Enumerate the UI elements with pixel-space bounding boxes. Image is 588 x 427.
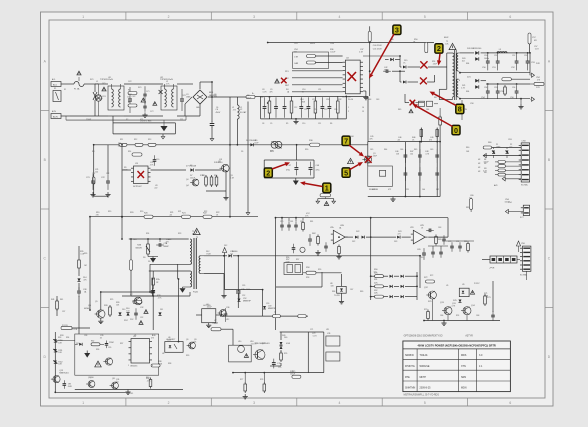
wire — [371, 276, 375, 296]
svg-text:C43: C43 — [376, 99, 379, 101]
gnd — [293, 119, 298, 124]
svg-text:R22: R22 — [204, 211, 207, 213]
svg-text:222: 222 — [154, 187, 157, 189]
vert — [232, 329, 234, 345]
svg-text:104: 104 — [422, 189, 425, 191]
warning triangle W3b — [153, 102, 157, 106]
wire — [225, 289, 263, 291]
transistor Q13 — [440, 302, 452, 315]
svg-text:Q15: Q15 — [262, 343, 266, 345]
wire — [282, 218, 303, 221]
svg-text:C37: C37 — [62, 311, 65, 313]
transistor Q4 — [186, 179, 199, 187]
resistor R7A — [151, 271, 160, 330]
svg-text:MMBT5401: MMBT5401 — [59, 373, 68, 375]
svg-text:R44: R44 — [350, 136, 353, 138]
transformer T2 winding A — [190, 239, 192, 264]
svg-text:C58: C58 — [470, 103, 473, 105]
svg-text:C9: C9 — [270, 123, 272, 125]
fuse holder box — [53, 88, 61, 102]
border row ticks — [41, 111, 554, 308]
svg-text:1: 1 — [325, 184, 329, 193]
conn CN4 — [505, 205, 529, 215]
svg-text:R6: R6 — [330, 123, 332, 125]
vertical — [323, 332, 325, 373]
svg-text:R79: R79 — [292, 371, 295, 373]
vertical part — [470, 198, 473, 212]
svg-text:OB2265: OB2265 — [130, 366, 138, 368]
oval R79 — [292, 375, 301, 378]
component value labels — [80, 40, 541, 383]
border zone numbers — [82, 15, 511, 405]
cap C52 — [511, 54, 519, 71]
svg-text:R11: R11 — [120, 139, 123, 141]
common-mode choke LF1 — [92, 79, 124, 116]
svg-text:C49: C49 — [430, 149, 433, 151]
svg-text:5: 5 — [344, 168, 348, 177]
pfc box rails — [368, 142, 440, 197]
wire gnd bus — [94, 195, 108, 197]
marker 1 — [323, 183, 331, 193]
svg-text:R74: R74 — [456, 315, 459, 317]
svg-text:3: 3 — [253, 15, 255, 19]
zener Z2 — [53, 349, 62, 354]
svg-text:C21: C21 — [92, 173, 95, 175]
svg-text:C32: C32 — [140, 307, 143, 309]
svg-text:R49: R49 — [398, 109, 401, 111]
svg-text:104: 104 — [462, 60, 465, 62]
gnd arrows — [316, 199, 336, 204]
svg-text:1: 1 — [128, 365, 129, 367]
cap C64 — [431, 248, 443, 258]
svg-text:RX1: RX1 — [138, 87, 142, 89]
svg-text:C32: C32 — [140, 317, 143, 319]
resistor R38 — [151, 364, 160, 367]
transistor Q10 — [86, 381, 95, 388]
border inner frame — [49, 20, 545, 398]
svg-text:400W LCD/TV POWER (NCP1396+OB2: 400W LCD/TV POWER (NCP1396+OB2265+NCP160… — [417, 344, 495, 348]
svg-text:1000u: 1000u — [484, 58, 489, 60]
svg-text:R58: R58 — [306, 267, 309, 269]
zener pair 1 — [492, 148, 495, 159]
warning triangle W3 — [141, 98, 146, 102]
cap bank v2 — [418, 142, 422, 197]
svg-text:C15: C15 — [312, 99, 315, 101]
svg-text:R41: R41 — [60, 299, 63, 301]
transistor Q16 — [212, 310, 226, 325]
svg-text:R59: R59 — [318, 269, 321, 271]
svg-text:C65: C65 — [420, 257, 423, 259]
svg-text:C6: C6 — [216, 107, 218, 109]
resistor R78 — [263, 373, 266, 393]
resistor R63 — [338, 244, 341, 256]
svg-text:CN5: CN5 — [521, 243, 525, 245]
marker 10 — [452, 125, 460, 134]
svg-text:R81: R81 — [464, 241, 467, 243]
svg-text:R1: R1 — [128, 90, 130, 92]
diode D15 — [385, 58, 400, 61]
box right2 — [326, 352, 340, 361]
wire — [90, 217, 97, 313]
loop box sec — [276, 241, 322, 287]
svg-text:D13: D13 — [76, 343, 79, 345]
resistor RB2 — [128, 102, 137, 107]
svg-text:MDS: MDS — [461, 354, 467, 357]
svg-text:100uF: 100uF — [330, 51, 336, 53]
zener pair 2 — [506, 148, 509, 159]
wire — [177, 84, 200, 116]
wire rail out1 — [486, 52, 530, 54]
svg-text:R70: R70 — [428, 301, 431, 303]
svg-text:472: 472 — [388, 189, 391, 191]
svg-text:C54: C54 — [484, 87, 487, 89]
wire bottom rail — [90, 216, 258, 218]
connector CN5 — [520, 243, 531, 277]
gnd — [363, 91, 369, 100]
svg-text:C74: C74 — [456, 241, 459, 243]
svg-text:D7: D7 — [190, 165, 192, 167]
svg-text:R40: R40 — [146, 377, 149, 379]
warning triangle W11 — [470, 290, 474, 294]
cap C60 — [308, 234, 312, 246]
wire — [526, 271, 528, 280]
left loop box — [293, 52, 329, 69]
svg-text:473: 473 — [151, 337, 154, 339]
svg-text:D10: D10 — [122, 309, 125, 311]
svg-text:TL431: TL431 — [334, 295, 341, 297]
svg-text:1000u: 1000u — [246, 289, 251, 291]
resistor R14 — [132, 153, 142, 156]
marker 8 — [456, 104, 464, 114]
svg-text:D23: D23 — [394, 241, 397, 243]
transistor Q9 — [187, 342, 196, 349]
svg-text:C15: C15 — [324, 109, 327, 111]
wire — [446, 240, 474, 242]
resistor R17 — [215, 175, 218, 187]
svg-text:12V: 12V — [536, 87, 540, 89]
red X d16 — [420, 61, 427, 68]
bridge rectifier BD1 — [193, 90, 218, 104]
diode D13b — [75, 343, 82, 346]
resistor R13 — [148, 143, 156, 146]
svg-text:MSTRHLRSNWFLL JS-T-YD-RDS: MSTRHLRSNWFLL JS-T-YD-RDS — [404, 395, 440, 397]
resistor R30 — [309, 140, 320, 146]
svg-text:104: 104 — [410, 153, 413, 155]
dual diode D20 — [467, 48, 486, 61]
gnd — [221, 293, 226, 298]
svg-text:ACN: ACN — [53, 116, 58, 119]
svg-text:D22: D22 — [352, 241, 355, 243]
svg-text:RTE: RTE — [405, 376, 410, 379]
wire — [238, 255, 420, 257]
svg-text:C30: C30 — [168, 239, 171, 241]
svg-text:4: 4 — [338, 15, 340, 19]
wire — [363, 63, 400, 65]
svg-text:MMBT8P: MMBT8P — [243, 301, 252, 303]
vertical resistor R50 — [373, 42, 428, 53]
cap C62 — [425, 229, 434, 233]
cap CY2 — [143, 102, 146, 112]
svg-text:Q5: Q5 — [95, 301, 98, 303]
wire — [131, 295, 153, 297]
svg-text:C68: C68 — [476, 315, 479, 317]
wire — [346, 236, 413, 238]
svg-text:R32: R32 — [91, 341, 94, 343]
arrow from 10 — [413, 104, 453, 127]
svg-text:15: 15 — [362, 111, 364, 113]
wire — [121, 217, 123, 239]
svg-text:C62: C62 — [300, 221, 303, 223]
svg-text:R32: R32 — [338, 99, 341, 101]
svg-text:CX2: CX2 — [128, 81, 132, 83]
svg-text:C11: C11 — [318, 123, 321, 125]
diode D28 — [263, 306, 277, 311]
open arrow fb2 — [502, 177, 521, 181]
svg-text:U12: U12 — [226, 319, 229, 321]
svg-text:2: 2 — [437, 44, 441, 53]
ic U5 OB2265 — [129, 336, 153, 368]
warning triangle W5 — [144, 310, 148, 314]
title block table — [403, 341, 511, 392]
svg-text:XTN: XTN — [461, 365, 466, 368]
resistor R26 — [104, 305, 111, 317]
svg-text:R12: R12 — [134, 139, 137, 141]
svg-text:R76: R76 — [284, 353, 287, 355]
resistor R15 — [200, 175, 207, 187]
primary loop — [439, 67, 452, 100]
cap C21 — [86, 174, 95, 190]
svg-text:F1: F1 — [64, 89, 66, 91]
vertical cap C57 — [528, 33, 537, 53]
svg-text:WFRLSE: WFRLSE — [420, 365, 430, 368]
svg-text:LF1: LF1 — [108, 77, 111, 79]
diode D10 — [118, 312, 121, 315]
svg-text:CY1: CY1 — [146, 91, 150, 93]
warning triangle W6 — [139, 321, 143, 325]
svg-text:R77: R77 — [240, 379, 243, 381]
svg-text:473: 473 — [398, 233, 401, 235]
resistor R71 — [484, 294, 492, 306]
component reference labels — [60, 39, 540, 381]
gnd — [243, 394, 248, 399]
svg-text:R73: R73 — [424, 309, 427, 311]
wire — [280, 331, 324, 333]
wire — [121, 296, 123, 334]
transistor Q1 (X) — [362, 156, 371, 163]
svg-text:R30: R30 — [305, 149, 308, 151]
svg-text:100uF: 100uF — [290, 373, 296, 375]
svg-text:Q11: Q11 — [112, 378, 115, 380]
svg-text:L5: L5 — [274, 312, 276, 314]
svg-text:CY2: CY2 — [150, 111, 154, 113]
svg-text:R72: R72 — [424, 277, 427, 279]
svg-text:C8: C8 — [262, 123, 264, 125]
cap C54 — [481, 85, 490, 99]
svg-text:2009-8-25: 2009-8-25 — [420, 386, 432, 389]
opto U9 — [459, 288, 469, 296]
svg-text:SRN: SRN — [461, 376, 466, 379]
varistor RV1 — [93, 84, 104, 116]
vertical — [307, 332, 309, 373]
svg-text:R16: R16 — [214, 175, 217, 177]
svg-text:473: 473 — [384, 69, 387, 71]
svg-text:CX1: CX1 — [102, 96, 106, 98]
svg-text:6: 6 — [509, 15, 511, 19]
svg-text:R20: R20 — [140, 211, 143, 213]
svg-text:C71: C71 — [310, 329, 313, 331]
oval junction — [92, 177, 95, 184]
svg-text:C20: C20 — [156, 159, 159, 161]
svg-text:C40 250V: C40 250V — [373, 45, 383, 47]
gnd — [315, 250, 320, 255]
svg-text:C12: C12 — [294, 107, 297, 109]
wire — [517, 259, 520, 261]
svg-text:R2: R2 — [128, 102, 130, 104]
svg-text:C22: C22 — [106, 173, 109, 175]
wire rail out2 — [486, 83, 530, 85]
earth arrow up CN5 — [516, 241, 520, 252]
vertical x370 — [370, 218, 372, 300]
svg-text:C11: C11 — [318, 89, 321, 91]
dual diode D21 — [460, 77, 486, 89]
red X d18 — [410, 100, 416, 106]
svg-text:3: 3 — [253, 401, 255, 405]
gnd — [339, 299, 344, 304]
cap bank v1 — [404, 142, 408, 197]
zener Z1 — [53, 339, 62, 344]
warning triangle W8 — [348, 158, 354, 163]
svg-text:R24: R24 — [146, 233, 149, 235]
arrow from 2b — [437, 54, 441, 66]
svg-text:R8: R8 — [92, 151, 94, 153]
svg-text:A3TYR: A3TYR — [465, 335, 473, 338]
svg-text:221: 221 — [406, 189, 409, 191]
tl431 U8 — [334, 286, 346, 297]
oval R32b — [91, 341, 104, 346]
svg-text:1N48: 1N48 — [186, 96, 190, 98]
svg-text:CX1: CX1 — [102, 83, 106, 85]
svg-text:Q3: Q3 — [218, 161, 220, 163]
diode D27 — [238, 290, 252, 303]
wire — [363, 55, 400, 57]
svg-text:R24: R24 — [133, 239, 136, 241]
svg-text:C16: C16 — [326, 99, 329, 101]
svg-text:T2P4P0CleN: T2P4P0CleN — [100, 79, 113, 81]
svg-text:R78: R78 — [260, 379, 263, 381]
left column x55 — [54, 332, 56, 392]
svg-text:222: 222 — [230, 253, 233, 255]
svg-text:C52: C52 — [512, 55, 515, 57]
connector ACL — [51, 82, 70, 87]
svg-text:CN4: CN4 — [508, 202, 512, 204]
gnd — [441, 321, 446, 326]
cap C38 — [77, 287, 81, 334]
svg-text:PCON: PCON — [62, 325, 68, 327]
svg-text:R44: R44 — [384, 149, 387, 151]
svg-text:C48: C48 — [316, 165, 319, 167]
cap C47 box — [264, 160, 314, 178]
transformer T2 winding B — [190, 271, 192, 287]
transistor Q14 — [461, 305, 476, 315]
svg-text:T1: T1 — [453, 103, 455, 105]
output arrow 24V — [530, 63, 540, 77]
row p3 — [374, 293, 417, 299]
svg-text:C73: C73 — [448, 241, 451, 243]
red X on U3 — [138, 171, 145, 178]
arrow from 8 — [430, 92, 457, 106]
svg-text:SRWFD: SRWFD — [405, 354, 414, 357]
warning triangle W9 — [324, 201, 329, 205]
transistor Q7 — [130, 294, 142, 305]
svg-text:MMBT8P: MMBT8P — [268, 308, 277, 310]
connector header PVR — [482, 256, 517, 270]
vertical sec left — [275, 218, 277, 330]
earth arrow up — [223, 248, 227, 290]
row RET — [285, 85, 343, 87]
resistor R21 — [182, 213, 191, 219]
resistor R76 — [270, 351, 282, 373]
wire — [185, 97, 192, 104]
svg-text:1234: 1234 — [330, 43, 334, 45]
row p1 — [374, 273, 417, 278]
wire bus top — [255, 96, 368, 141]
sub-EMI loop — [113, 116, 175, 139]
resistor R12 — [135, 143, 143, 146]
wire loop B — [149, 270, 190, 272]
spark gap CX1 — [95, 84, 105, 116]
svg-text:1N48: 1N48 — [123, 169, 127, 171]
red X u2 — [351, 75, 353, 77]
wire — [345, 236, 353, 238]
gnd — [293, 178, 299, 185]
X mark on CY — [159, 90, 163, 94]
diode D22 — [355, 236, 396, 239]
wire pfc rail — [94, 144, 238, 146]
capacitor bank — [261, 96, 347, 119]
svg-text:2: 2 — [348, 111, 349, 113]
row PF2 — [285, 78, 343, 80]
diode D16 — [403, 66, 420, 69]
resistor R77 — [244, 373, 247, 393]
diode D5 — [246, 140, 257, 146]
svg-text:R92: R92 — [374, 290, 377, 292]
svg-text:C46: C46 — [400, 149, 403, 151]
svg-text:472: 472 — [140, 119, 143, 121]
svg-text:4: 4 — [152, 365, 153, 367]
resistor R27 — [133, 301, 142, 304]
transformer T2 secondary — [193, 256, 204, 294]
svg-text:R48: R48 — [368, 99, 371, 101]
wire — [439, 108, 442, 142]
warning triangle W14 — [275, 79, 280, 83]
inductor L4 — [273, 312, 281, 318]
svg-text:T04L01: T04L01 — [420, 354, 429, 357]
resistor R40 — [149, 378, 152, 389]
transformer T1 core — [454, 50, 456, 100]
svg-text:104: 104 — [127, 96, 130, 98]
svg-text:103: 103 — [372, 189, 375, 191]
svg-text:ACL: ACL — [52, 78, 56, 81]
vertical x417 — [416, 272, 418, 300]
svg-text:R91: R91 — [374, 279, 377, 281]
box divider — [284, 263, 303, 275]
wire — [428, 246, 448, 249]
svg-text:104: 104 — [126, 310, 129, 312]
cap C6 450V — [210, 97, 221, 141]
fuse F1 — [70, 82, 92, 91]
wire — [153, 278, 179, 280]
wire sec mid — [220, 315, 308, 317]
